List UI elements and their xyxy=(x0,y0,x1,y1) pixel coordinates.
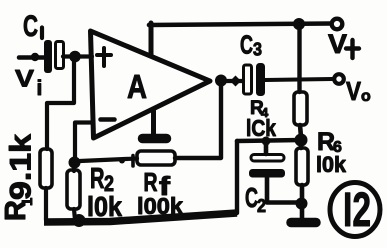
svg-text:V: V xyxy=(15,66,35,93)
wire: V+ rail down to R4 xyxy=(297,26,301,92)
wire: node to C2 top plate xyxy=(264,142,269,154)
wire: ground stub xyxy=(300,203,305,218)
wire: output to C3 with arrow mark xyxy=(226,79,243,83)
svg-text:V: V xyxy=(328,29,347,59)
svg-text:i: i xyxy=(37,77,43,100)
wire: Rf to output riser xyxy=(175,84,221,158)
wire: bias rail riser to divider node xyxy=(235,141,239,213)
wire: input lead from Vi xyxy=(19,55,44,60)
wire: R6 top lead xyxy=(299,143,304,148)
capacitor C3 (right plate, filled) xyxy=(256,63,265,96)
wire: op-amp V+ supply stub xyxy=(149,23,154,56)
figure number 12 circled xyxy=(330,183,380,237)
op-amp plus sign xyxy=(97,48,111,66)
svg-text:o: o xyxy=(361,88,371,105)
wire: op-amp ground stub xyxy=(151,111,156,136)
node: junction V+ rail / divider xyxy=(293,18,305,30)
svg-text:l00k: l00k xyxy=(137,193,184,219)
node: junction at + input xyxy=(69,51,81,63)
svg-text:C: C xyxy=(240,30,253,60)
node: tick on wire xyxy=(131,156,135,167)
terminal: Vo xyxy=(334,74,344,84)
resistor R2 xyxy=(67,170,80,209)
capacitor C2 (bottom plate, filled) xyxy=(249,169,285,178)
svg-text:V: V xyxy=(346,76,362,106)
svg-text:C: C xyxy=(23,10,38,43)
svg-text:2: 2 xyxy=(257,196,266,216)
svg-text:I2: I2 xyxy=(343,184,371,237)
resistor R4 xyxy=(294,92,307,125)
node: R6 bottom junction xyxy=(296,198,308,210)
wire: top V+ rail xyxy=(149,24,331,26)
node: C2 top junction xyxy=(262,137,271,146)
resistor Rf xyxy=(137,151,175,165)
wire: C1 to op-amp + input xyxy=(63,54,92,58)
wire: C2 bottom to R6 bottom node xyxy=(267,177,300,203)
node: divider midpoint xyxy=(295,134,308,147)
node: R2 bottom junction on rail xyxy=(73,214,86,227)
wire: R4 bottom lead xyxy=(300,125,301,137)
capacitor C1 (left plate, filled) xyxy=(44,40,52,73)
svg-text:3: 3 xyxy=(253,40,262,60)
svg-text:lCk: lCk xyxy=(246,115,276,141)
capacitor C2 (top plate, hollow) xyxy=(251,155,284,162)
wire: R1 bottom lead xyxy=(44,188,48,220)
resistor R1 xyxy=(40,149,52,188)
resistor R6 xyxy=(296,148,308,185)
wire: op-amp minus input xyxy=(75,123,92,161)
ground: op-amp xyxy=(143,134,167,144)
wire: divider node to bias riser xyxy=(237,140,301,141)
svg-text:l0k: l0k xyxy=(316,152,347,177)
node: junction R2 / Rf / minus input xyxy=(69,157,81,169)
op-amp minus sign xyxy=(101,117,115,122)
node: input terminal blob xyxy=(31,53,39,61)
ground: bottom right xyxy=(291,218,316,228)
wire: node to Rf xyxy=(80,159,137,162)
op-amp U1 triangle xyxy=(91,31,211,138)
wire: R2 bottom lead xyxy=(74,163,75,220)
capacitor C1 (right plate, hollow) xyxy=(56,42,64,69)
wire: R6 bottom lead xyxy=(300,185,305,200)
svg-text:A: A xyxy=(127,68,147,105)
wire: junction down and left to R1 xyxy=(47,59,74,149)
terminal: V+ xyxy=(332,19,343,30)
wire: bias rail (bottom) xyxy=(44,213,237,222)
svg-text:9.1k: 9.1k xyxy=(5,134,38,200)
wire: C3 to Vo terminal xyxy=(265,79,332,80)
capacitor C3 (left plate, hollow) xyxy=(244,65,252,94)
node: op-amp output junction xyxy=(215,75,227,87)
svg-text:l0k: l0k xyxy=(87,191,122,222)
